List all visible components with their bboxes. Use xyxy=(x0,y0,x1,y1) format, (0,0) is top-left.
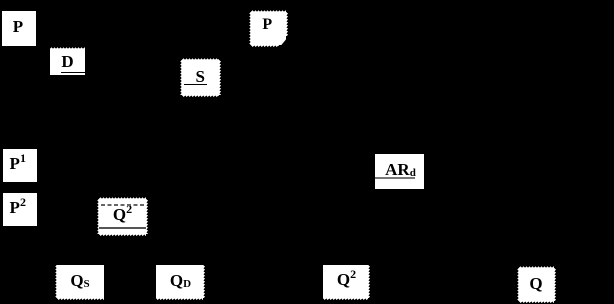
curve label S (supply) xyxy=(182,60,219,95)
wire solid guide line through Q2 box xyxy=(99,227,146,229)
curve label D (demand) xyxy=(50,49,85,75)
wire AR curve segment through box xyxy=(375,177,415,179)
wire demand-curve underline segment xyxy=(61,72,85,74)
wire supply-curve underline segment xyxy=(184,84,207,86)
axis label P (top-left price axis) xyxy=(2,11,36,46)
wire dashed guide line through Q2 box xyxy=(101,204,144,206)
axis label QS (quantity supplied) xyxy=(57,265,104,298)
axis label Q2 (quantity at equilibrium) xyxy=(323,265,368,298)
axis label Q (quantity axis) xyxy=(519,268,554,302)
axis label P (top-right price axis, folded corner) xyxy=(251,12,286,46)
node label Q2 (equilibrium marker mid-chart) xyxy=(99,199,146,234)
axis label P2 (price level 2) xyxy=(3,193,38,227)
curve label ARd (average revenue) xyxy=(375,154,424,189)
axis label P1 (price level 1) xyxy=(3,149,38,183)
axis label QD (quantity demanded) xyxy=(156,265,203,298)
